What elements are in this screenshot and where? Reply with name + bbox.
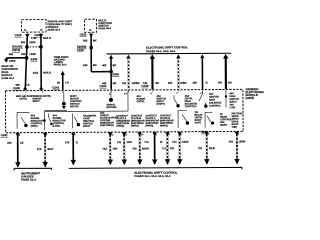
svg-text:C240: C240: [13, 86, 20, 90]
GEM lower switch S2: [49, 113, 53, 125]
svg-text:INPUT: INPUT: [33, 100, 41, 103]
svg-text:BK/Y: BK/Y: [47, 147, 53, 151]
GEM lower text: on relay control: [195, 111, 204, 124]
svg-text:O/W: O/W: [127, 140, 133, 144]
GEM lower text: 4x4 range indicator (LOW): [53, 114, 66, 127]
wire 1731 BK/LG vertical from RAP pin 10: [31, 33, 51, 90]
svg-text:744: 744: [172, 140, 177, 144]
svg-text:Y/W: Y/W: [112, 147, 117, 151]
svg-text:BK: BK: [155, 81, 159, 85]
GEM inner box C partition: [43, 111, 67, 130]
svg-text:(LOW): (LOW): [53, 125, 60, 128]
svg-text:BK: BK: [228, 80, 232, 84]
bottom wire 771 P/O striped: [162, 132, 175, 165]
GEM module label: [245, 87, 265, 100]
svg-text:CONTROL: CONTROL: [209, 105, 221, 108]
svg-text:791: 791: [198, 146, 203, 150]
svg-text:7: 7: [46, 135, 47, 137]
svg-text:(GEM): (GEM): [245, 96, 254, 100]
bottom wire 679 BK/Y striped: [37, 132, 54, 167]
svg-text:940: 940: [83, 38, 88, 42]
svg-text:240: 240: [7, 141, 12, 145]
GEM internal text: 4x2 switch input: [156, 95, 166, 106]
instrument gauges bracket: [14, 168, 52, 170]
svg-text:LB/W: LB/W: [182, 140, 189, 144]
RAS module label: [1, 65, 18, 80]
svg-text:LB: LB: [20, 141, 24, 145]
svg-text:PAGES 34-1, 34-2, 34-3, 34-4: PAGES 34-1, 34-2, 34-3, 34-4: [134, 174, 170, 178]
GEM lower text: 4x4 check plate buffer: [100, 112, 118, 128]
connector triangle on wire 1731 at GEM: [39, 86, 43, 89]
svg-text:763: 763: [103, 147, 108, 151]
GEM internal text: hi/lo solenoid control: [185, 95, 198, 108]
svg-text:BK: BK: [113, 63, 117, 67]
svg-text:466: 466: [192, 81, 197, 85]
svg-text:CONTROL: CONTROL: [185, 105, 197, 108]
wire 84 LG up-arrow to trim-step: [57, 71, 69, 90]
svg-text:PAGE 41-4: PAGE 41-4: [21, 178, 36, 182]
electronic shift control bottom label: [134, 171, 177, 178]
multi-function switch dashed box: [85, 19, 97, 32]
svg-text:(4WD): (4WD): [31, 125, 38, 128]
svg-text:TIED: TIED: [232, 126, 238, 129]
striped jumper wire between splices: [27, 46, 41, 48]
svg-text:S206: S206: [31, 57, 38, 61]
svg-text:998: 998: [9, 53, 14, 56]
svg-text:CNTRL: CNTRL: [136, 100, 145, 103]
svg-text:RETURN: RETURN: [106, 106, 116, 109]
electronic shift control rail line: [107, 52, 231, 55]
svg-text:INPUTS: INPUTS: [70, 105, 79, 108]
wire 998 lower label: [15, 84, 29, 87]
svg-text:1013: 1013: [33, 72, 39, 75]
bottom wire 774 W: [144, 132, 163, 165]
svg-text:1731: 1731: [31, 37, 37, 40]
wire 466 R up to rail: [192, 54, 207, 89]
svg-text:LG: LG: [65, 80, 69, 84]
svg-text:1: 1: [238, 134, 239, 136]
svg-text:481: 481: [229, 139, 234, 143]
GEM pin numbers top: [109, 92, 203, 96]
GEM lower text: transfer case neutral switch: [83, 115, 96, 128]
svg-text:8: 8: [19, 135, 20, 137]
GEM bottom pin numbers: [19, 133, 239, 137]
GEM lower text: contact plate A: [116, 115, 130, 128]
svg-text:741: 741: [117, 140, 122, 144]
bottom wire 791 R/LB striped: [198, 132, 215, 165]
svg-text:784: 784: [122, 81, 127, 85]
GEM lower switch S3 (transfer case): [73, 113, 80, 128]
svg-text:LB: LB: [26, 84, 30, 87]
svg-text:LB/W: LB/W: [29, 41, 36, 44]
splice S206 dot: [109, 70, 113, 74]
GEM internal text: position switch inputs: [70, 95, 82, 108]
GEM pin stubs top: [26, 90, 226, 93]
svg-text:C218: C218: [15, 33, 22, 37]
GEM lower text: contact plate C: [145, 114, 159, 127]
GEM internal: signal return symbol: [106, 91, 116, 109]
wire 463 O/BK striped up to rail: [168, 54, 187, 89]
svg-text:BK: BK: [93, 38, 97, 42]
svg-text:3: 3: [208, 134, 209, 136]
electronic shift control bottom rail: [69, 167, 242, 170]
wire 940 BK from MFS: [83, 33, 97, 72]
wire 740 BK up to rail: [143, 54, 160, 89]
wire 998 LB/W vertical from RAP pin 11: [21, 34, 37, 91]
svg-text:BK: BK: [113, 81, 117, 85]
svg-text:754: 754: [132, 146, 137, 150]
svg-text:(SHIFT): (SHIFT): [156, 103, 165, 106]
svg-text:PAGE 47-4: PAGE 47-4: [1, 77, 14, 80]
multi-function switch label: [98, 18, 112, 30]
connector triangle on wire 998 at GEM: [23, 86, 27, 89]
GEM internal wire from pin 226: [225, 90, 227, 107]
svg-text:(4WD)): (4WD)): [160, 124, 168, 127]
splice S205W labels: [77, 45, 87, 52]
svg-text:LOW: LOW: [230, 106, 236, 109]
GEM lower text: 4x4 range indicator (4WD): [31, 114, 44, 127]
GEM internal partition line: [45, 90, 128, 111]
svg-text:PAGE 34-1: PAGE 34-1: [54, 62, 68, 66]
svg-text:ELECTRONIC SHIFT CONTROL: ELECTRONIC SHIFT CONTROL: [146, 45, 188, 49]
svg-text:O/BK: O/BK: [180, 81, 187, 85]
svg-text:774: 774: [144, 140, 149, 144]
electronic shift control rail label (top): [146, 45, 188, 53]
svg-text:GATE: GATE: [195, 121, 202, 124]
GEM internal text: 4x4 high switch input: [229, 92, 239, 109]
svg-text:BK/W: BK/W: [142, 146, 149, 150]
GEM lower text: contact plate B: [131, 114, 145, 127]
svg-text:SHIFT/RUN): SHIFT/RUN): [100, 124, 114, 127]
svg-text:11: 11: [125, 134, 127, 136]
svg-text:P/O: P/O: [170, 146, 174, 150]
svg-text:PAGE 40-4: PAGE 40-4: [48, 29, 61, 32]
svg-text:771: 771: [162, 146, 167, 150]
GEM module dashed box: [5, 89, 243, 132]
svg-text:C210: C210: [77, 48, 84, 52]
splice S206 dot on wire 998: [25, 56, 29, 60]
svg-text:462: 462: [102, 63, 107, 67]
svg-text:998: 998: [21, 53, 26, 56]
svg-text:R: R: [206, 81, 208, 85]
svg-text:LB/W: LB/W: [29, 53, 36, 56]
wire 760 BK up to rail: [217, 54, 232, 89]
svg-text:C241: C241: [1, 133, 8, 137]
svg-text:GEAR: GEAR: [220, 124, 227, 127]
svg-text:940: 940: [83, 63, 88, 67]
svg-text:BK/LG: BK/LG: [43, 37, 51, 40]
RAP module U1 dashed box: [22, 20, 47, 33]
splice label GAUGE CNTR: [12, 44, 23, 52]
GEM lower switch S4 (on relay): [178, 110, 189, 127]
svg-text:S206: S206: [112, 72, 119, 76]
svg-text:10: 10: [141, 134, 143, 136]
wire 784 LB/BK striped up to rail: [122, 55, 140, 90]
svg-text:C241: C241: [52, 85, 59, 89]
svg-text:5: 5: [169, 134, 170, 136]
bottom wire 240 LB: [7, 133, 24, 168]
trim-step/hazard lamps label: [54, 55, 69, 67]
wire 1013 BK/LG label: [33, 71, 51, 74]
svg-text:O: O: [76, 140, 78, 144]
bottom wire 741 O/W striped: [117, 132, 133, 165]
svg-text:CNTR: CNTR: [12, 48, 21, 52]
GEM internal text: 4x2 center solenoid: [209, 93, 222, 108]
bottom wire 481 LB/W striped: [229, 131, 246, 164]
RAP module label: [48, 20, 73, 32]
svg-text:LB/BK: LB/BK: [132, 81, 140, 85]
GEM lower switch S1 (4x4 range indicator 4WD): [17, 112, 29, 128]
svg-text:4: 4: [181, 133, 182, 136]
svg-text:679: 679: [37, 147, 42, 151]
splice dot on wire 940: [89, 46, 93, 50]
bottom wire 754 BK/W striped: [132, 132, 149, 165]
GEM internal text: 4WD air suspension: [16, 95, 52, 103]
svg-text:BK/LG: BK/LG: [43, 71, 51, 74]
splice dot on wire 998: [25, 45, 29, 49]
GEM internal switch mid right: [199, 91, 208, 108]
bottom wire 744 LB/W striped: [172, 132, 189, 165]
svg-text:9: 9: [156, 134, 157, 136]
svg-text:(4WD)): (4WD)): [131, 124, 139, 127]
svg-text:6: 6: [74, 135, 75, 137]
svg-text:C202: C202: [80, 32, 87, 36]
GEM internal text: 4x4 range: [136, 95, 145, 103]
svg-text:INPUT: INPUT: [83, 125, 91, 128]
svg-text:463: 463: [168, 81, 173, 85]
svg-text:12: 12: [111, 134, 113, 136]
svg-text:760: 760: [218, 81, 223, 85]
svg-text:PAGE 40-4: PAGE 40-4: [98, 27, 111, 30]
svg-text:CNTRL: CNTRL: [19, 98, 28, 101]
wire 462 BK up to rail: [102, 55, 117, 90]
svg-text:C204: C204: [99, 84, 106, 88]
instrument gauges label: [21, 171, 40, 181]
svg-text:(4WD)): (4WD)): [116, 125, 124, 128]
GEM internal switch symbol mid: [174, 95, 180, 107]
wire 940 lower label: [83, 63, 97, 67]
svg-text:676: 676: [65, 140, 70, 144]
GEM lower text: contact plate D: [160, 114, 174, 127]
bottom wire 676 O: [65, 132, 78, 165]
GEM internal wire to ground dot: [62, 91, 66, 109]
arrow down to RAS module: [4, 58, 16, 63]
svg-text:R/LB: R/LB: [209, 146, 215, 150]
wire 940 horizontal to S206: [91, 71, 111, 73]
branch wire 998 to RAS, horizontal: [6, 53, 36, 58]
svg-text:PAGES 34-1, 34-2, 34-4: PAGES 34-1, 34-2, 34-4: [146, 49, 176, 53]
svg-text:BK: BK: [93, 63, 97, 67]
GEM lower switch S5: [205, 112, 214, 127]
svg-text:LB/W: LB/W: [9, 60, 16, 63]
GEM lower text: 4x4 gear control: [220, 113, 232, 127]
svg-text:LB/W: LB/W: [239, 139, 246, 143]
GEM lower text: neutral gear input: [232, 112, 244, 129]
splice dot on wire 1731: [39, 45, 43, 49]
svg-text:C238: C238: [141, 84, 148, 88]
bottom wire 763 Y/W striped: [102, 132, 118, 165]
svg-text:(4WD)): (4WD)): [146, 124, 154, 127]
